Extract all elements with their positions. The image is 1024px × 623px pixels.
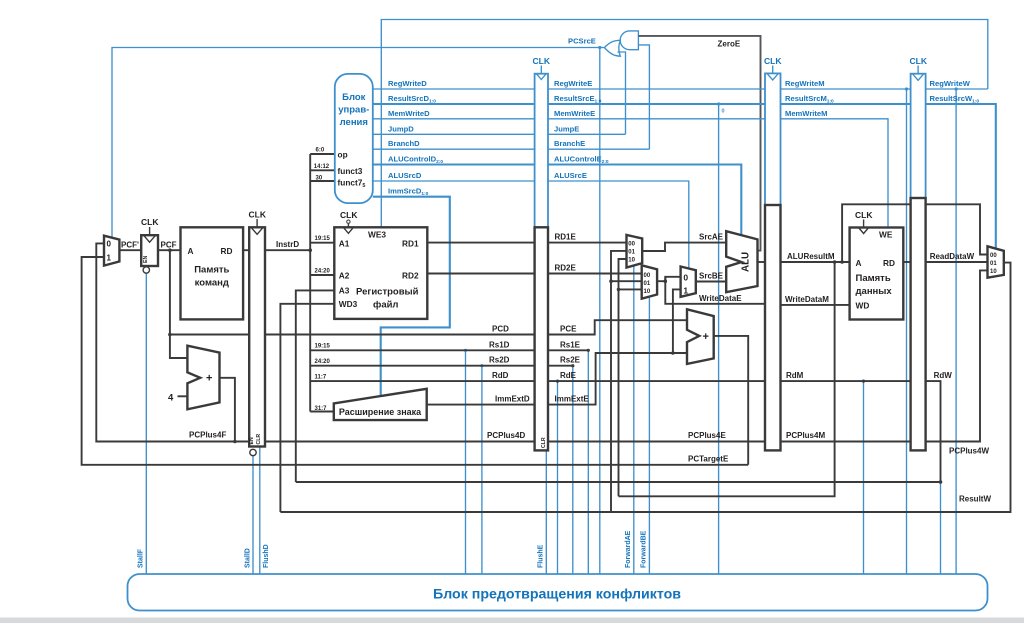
wire ResultSrcE0 tap to hazard bbox=[718, 104, 720, 574]
svg-text:PCSrcE: PCSrcE bbox=[568, 37, 596, 46]
svg-text:ForwardBE: ForwardBE bbox=[641, 530, 648, 568]
wire StallD (hazard to IF/ID EN) bbox=[252, 456, 254, 574]
svg-text:RD1: RD1 bbox=[402, 238, 419, 248]
wire ForwardBE (hazard to forward mux B select) bbox=[648, 298, 650, 574]
wire BranchD bbox=[373, 148, 535, 150]
sign extender: Расширение знака bbox=[334, 389, 427, 420]
svg-text:ALUResultM: ALUResultM bbox=[787, 252, 835, 261]
wire Rs2D tap to hazard bbox=[481, 366, 483, 574]
junction dots execute bbox=[609, 279, 675, 354]
svg-text:ALUSrcD: ALUSrcD bbox=[388, 171, 422, 180]
svg-text:Rs1D: Rs1D bbox=[489, 340, 510, 349]
wire mux B output to SrcB mux 0 and WriteDataE bbox=[657, 277, 681, 281]
svg-text:Расширение знака: Расширение знака bbox=[339, 407, 422, 417]
svg-text:A1: A1 bbox=[339, 238, 350, 248]
svg-text:WriteDataE: WriteDataE bbox=[699, 294, 742, 303]
svg-text:ResultW: ResultW bbox=[959, 495, 991, 504]
wire RegWriteD bbox=[373, 88, 535, 90]
svg-text:24:20: 24:20 bbox=[315, 359, 331, 365]
wire PCPlus4D row bbox=[265, 441, 535, 443]
svg-text:RegWriteE: RegWriteE bbox=[554, 79, 592, 88]
svg-text:00: 00 bbox=[628, 242, 635, 248]
wire ResultW (result mux output feedback to WD3 and forward muxes) bbox=[280, 263, 1010, 512]
svg-text:PCE: PCE bbox=[560, 325, 577, 334]
svg-text:CLK: CLK bbox=[340, 210, 358, 220]
wire PCE to branch adder bbox=[548, 320, 687, 334]
svg-text:RdD: RdD bbox=[492, 371, 509, 380]
clock stub MEM/WB bbox=[917, 66, 919, 74]
wire RegWriteM bbox=[781, 88, 911, 90]
svg-text:MemWriteM: MemWriteM bbox=[785, 109, 827, 118]
wire 4 constant into adder bbox=[178, 395, 188, 397]
svg-text:Rs1E: Rs1E bbox=[560, 340, 581, 349]
svg-text:InstrD: InstrD bbox=[276, 240, 299, 249]
svg-text:A2: A2 bbox=[339, 271, 350, 281]
wire SrcBE (SrcB mux to ALU) bbox=[696, 281, 726, 283]
result mux bbox=[988, 246, 1004, 277]
wire ALUResultM down branch to forwarding line bbox=[619, 262, 835, 496]
wire ALUResultE to EX/MEM bbox=[758, 261, 765, 263]
svg-text:CLR: CLR bbox=[256, 434, 262, 445]
forward mux A bbox=[627, 235, 643, 268]
clock stub data memory bbox=[863, 220, 865, 228]
svg-text:+: + bbox=[703, 331, 709, 343]
wire BranchE up to AND gate bbox=[638, 45, 649, 149]
wire PCPlus4M row bbox=[781, 441, 911, 443]
svg-text:+: + bbox=[206, 373, 212, 385]
svg-text:ImmExtE: ImmExtE bbox=[555, 394, 590, 403]
svg-text:10: 10 bbox=[990, 269, 997, 275]
data memory: Память данных bbox=[850, 228, 904, 320]
wire RdE tap to hazard bbox=[557, 381, 559, 574]
wire ResultSrcM1:0 bbox=[781, 103, 911, 105]
wire ResultSrcD1:0 bbox=[373, 103, 535, 105]
wire JumpE bbox=[548, 133, 626, 135]
wire ImmExtE to SrcB mux 1 bbox=[673, 289, 681, 353]
svg-text:PCD: PCD bbox=[492, 325, 509, 334]
svg-text:WD: WD bbox=[856, 301, 870, 311]
MEM/WB pipeline register control part bbox=[911, 74, 926, 198]
svg-text:ZeroE: ZeroE bbox=[718, 40, 741, 49]
svg-text:24:20: 24:20 bbox=[315, 268, 331, 274]
svg-text:1: 1 bbox=[107, 254, 112, 263]
wire A3 from RdW feedback bbox=[296, 290, 335, 482]
svg-text:WE: WE bbox=[879, 230, 893, 240]
wire PC+4 adder output to PCPlus4F row bbox=[220, 378, 235, 442]
wire funct3 field 14:12 to control bbox=[310, 169, 335, 171]
wire ALUControlD2:0 bbox=[373, 163, 535, 165]
ID/EX pipeline register datapath part bbox=[535, 227, 548, 450]
wire ALUSrcE to SrcB mux select bbox=[548, 181, 689, 269]
svg-text:01: 01 bbox=[990, 261, 997, 267]
svg-text:WriteDataM: WriteDataM bbox=[785, 295, 829, 304]
junction dot InstrD bus bbox=[308, 248, 312, 252]
wire ResultSrcW1:0 to result mux select bbox=[926, 104, 996, 248]
wire RdE row to EX/MEM bbox=[548, 380, 765, 382]
svg-text:ления: ления bbox=[340, 117, 368, 128]
wire ImmSrcD1:0 to sign extender bbox=[373, 197, 450, 397]
svg-text:файл: файл bbox=[373, 300, 398, 311]
wire FlushE (hazard to ID/EX CLR) bbox=[545, 450, 547, 574]
PC mux bbox=[104, 236, 119, 266]
svg-text:RegWriteD: RegWriteD bbox=[388, 79, 427, 88]
svg-text:CLK: CLK bbox=[764, 56, 782, 66]
wire PCPlus4F feedback to PC mux input 0 bbox=[96, 243, 249, 441]
SrcB mux bbox=[681, 267, 696, 297]
junction dots blue bbox=[464, 46, 958, 367]
svg-text:ALUControlE2:0: ALUControlE2:0 bbox=[554, 155, 609, 166]
wire funct7 field 30 to control bbox=[310, 180, 335, 182]
branch adder bbox=[687, 309, 714, 364]
wire Rs2E row bbox=[548, 365, 573, 367]
clock stub PC bbox=[149, 227, 151, 235]
EN bubble on IF/ID (StallD) bbox=[250, 449, 256, 455]
svg-text:31:7: 31:7 bbox=[315, 406, 328, 412]
PC register bbox=[141, 235, 158, 266]
svg-text:4: 4 bbox=[168, 393, 174, 404]
svg-text:команд: команд bbox=[195, 278, 229, 289]
svg-text:Rs2D: Rs2D bbox=[489, 356, 510, 365]
svg-text:FlushE: FlushE bbox=[538, 544, 545, 568]
svg-text:op: op bbox=[338, 150, 348, 160]
instruction memory: Память команд bbox=[181, 227, 244, 319]
svg-text:ReadDataW: ReadDataW bbox=[930, 252, 975, 261]
svg-text:EN: EN bbox=[249, 437, 255, 444]
svg-text:14:12: 14:12 bbox=[314, 164, 330, 170]
wire StallF (hazard to PC EN) bbox=[145, 273, 147, 574]
wire PCF (PC register to instruction memory A) bbox=[158, 249, 181, 251]
wire Rs1E tap to hazard bbox=[587, 350, 589, 574]
svg-text:00: 00 bbox=[990, 253, 997, 259]
svg-text:funct75: funct75 bbox=[338, 178, 366, 190]
wire ForwardAE (hazard to forward mux A select) bbox=[633, 266, 635, 574]
AND gate (BranchE & ZeroE) bbox=[620, 31, 638, 50]
svg-text:RegWriteM: RegWriteM bbox=[785, 79, 825, 88]
wire A1 field 19:15 bbox=[310, 242, 334, 244]
svg-text:PCF: PCF bbox=[161, 241, 177, 250]
svg-text:RD1E: RD1E bbox=[555, 233, 577, 242]
svg-text:A: A bbox=[188, 246, 194, 256]
wire JumpE up to OR gate bbox=[618, 52, 626, 134]
svg-text:управ-: управ- bbox=[338, 105, 369, 116]
EX/MEM pipeline register datapath part bbox=[765, 205, 781, 450]
wire RD to IF/ID (InstrF) bbox=[243, 249, 249, 251]
svg-text:PCPlus4M: PCPlus4M bbox=[786, 431, 825, 440]
wire PCF' (PC mux to PC register) bbox=[119, 249, 141, 251]
wire PCTargetE feedback to PC mux input 1 bbox=[82, 257, 749, 465]
svg-text:CLK: CLK bbox=[141, 217, 159, 227]
wire RdW tap to hazard bbox=[940, 482, 942, 574]
wire ReadDataW to result mux 01 bbox=[926, 261, 988, 263]
wire Rs1D row 19:15 bbox=[310, 349, 534, 351]
svg-text:WD3: WD3 bbox=[339, 299, 358, 309]
svg-text:SrcBE: SrcBE bbox=[699, 272, 724, 281]
wire RdM tap to hazard bbox=[863, 381, 865, 574]
svg-text:01: 01 bbox=[644, 281, 651, 287]
svg-text:BranchE: BranchE bbox=[554, 139, 585, 148]
wire RdW (MEM/WB to feedback and hazard) bbox=[296, 381, 941, 482]
svg-text:EN: EN bbox=[143, 256, 149, 263]
wire ReadDataW (data memory RD to MEM/WB) bbox=[903, 261, 910, 263]
wire PCD row (IF/ID to ID/EX) bbox=[265, 334, 535, 336]
svg-text:MemWriteE: MemWriteE bbox=[554, 109, 595, 118]
wire PCTargetE (branch adder output to PC mux feedback) bbox=[714, 336, 749, 465]
svg-text:PCPlus4W: PCPlus4W bbox=[949, 447, 989, 456]
wire ImmExtD to ID/EX bbox=[427, 404, 535, 406]
wire PCSrcE down to hazard bbox=[599, 48, 601, 575]
svg-text:10: 10 bbox=[628, 258, 635, 264]
wire Rs1E row bbox=[548, 349, 588, 351]
svg-text:Память: Память bbox=[194, 265, 229, 276]
wire JumpD bbox=[373, 133, 535, 135]
wire MemWriteE bbox=[548, 118, 765, 120]
wire ALUControlE2:0 to ALU bbox=[548, 165, 741, 235]
wire A2 field 24:20 bbox=[310, 274, 334, 276]
wire RD2E to forward mux B bbox=[548, 273, 642, 275]
MEM/WB pipeline register datapath part bbox=[911, 198, 926, 450]
wire Rs2E tap to hazard bbox=[572, 366, 574, 574]
wire RegWriteW feedback top line to register file WE3 bbox=[381, 20, 988, 228]
svg-text:RegWriteW: RegWriteW bbox=[930, 79, 971, 88]
wire PCF tap down to PC+4 adder and PCD row bbox=[170, 250, 188, 358]
register file: Регистровый файл bbox=[334, 227, 427, 319]
svg-text:CLR: CLR bbox=[541, 437, 547, 448]
svg-text:StallD: StallD bbox=[244, 548, 251, 568]
svg-text:A: A bbox=[856, 258, 862, 268]
wire WriteDataE row bbox=[665, 277, 765, 304]
wire ALUResultM (EX/MEM to data memory A) bbox=[781, 261, 850, 263]
svg-text:RD2E: RD2E bbox=[555, 264, 577, 273]
svg-text:PCTargetE: PCTargetE bbox=[688, 455, 729, 464]
svg-text:PCPlus4F: PCPlus4F bbox=[189, 431, 226, 440]
svg-text:SrcAE: SrcAE bbox=[699, 233, 724, 242]
svg-text:WE3: WE3 bbox=[368, 229, 386, 239]
svg-text:A3: A3 bbox=[339, 285, 350, 295]
clock stub EX/MEM bbox=[772, 66, 774, 74]
svg-text:ResultSrcW1:0: ResultSrcW1:0 bbox=[930, 94, 980, 105]
wire ImmExtE row and rise to branch adder bbox=[548, 353, 687, 405]
wire FlushD (hazard to IF/ID CLR) bbox=[259, 447, 261, 575]
wire MemWriteM to data memory WE bbox=[781, 119, 889, 228]
svg-text:11:7: 11:7 bbox=[315, 374, 327, 380]
svg-text:ALUSrcE: ALUSrcE bbox=[554, 171, 587, 180]
svg-text:19:15: 19:15 bbox=[315, 236, 331, 242]
svg-text:PCPlus4E: PCPlus4E bbox=[688, 431, 726, 440]
wire ALUResultM up branch into MEM/WB (ALUResultW) bbox=[842, 204, 987, 262]
wire SrcAE (mux A output to ALU) bbox=[642, 243, 726, 251]
clock stub ID/EX bbox=[540, 66, 542, 74]
svg-text:6:0: 6:0 bbox=[316, 148, 325, 154]
wire ALUSrcD bbox=[373, 180, 535, 182]
wire 31:7 into sign extender bbox=[310, 411, 334, 413]
wire ALUResultM stub to forward mux B 10 bbox=[619, 288, 642, 290]
svg-text:ALU: ALU bbox=[741, 252, 752, 272]
wire PCSrcE row to PC mux select bbox=[112, 48, 605, 237]
svg-text:Rs2E: Rs2E bbox=[560, 356, 581, 365]
svg-text:CLK: CLK bbox=[533, 56, 551, 66]
wire RegWriteW tap to hazard bbox=[955, 89, 957, 574]
wire RdD row 11:7 bbox=[310, 380, 534, 382]
ALU bbox=[726, 231, 757, 292]
wire ZeroE (ALU zero flag to AND gate) bbox=[638, 36, 760, 251]
wire RegWriteM tap to hazard bbox=[906, 89, 908, 574]
svg-text:1: 1 bbox=[683, 286, 688, 296]
svg-text:00: 00 bbox=[644, 273, 651, 279]
PC+4 adder bbox=[187, 346, 219, 410]
wire MemWriteD bbox=[373, 118, 535, 120]
svg-text:RD: RD bbox=[221, 246, 233, 256]
wire PCPlus4W to result mux 10 bbox=[926, 270, 988, 441]
wire PCD into IF/ID bbox=[170, 334, 249, 336]
clock stub IF/ID bbox=[256, 219, 258, 227]
OR gate (PCSrcE = JumpE + BranchE&ZeroE) bbox=[604, 40, 620, 56]
svg-text:данных: данных bbox=[856, 286, 893, 297]
svg-text:RdW: RdW bbox=[934, 371, 953, 380]
svg-text:PCPlus4D: PCPlus4D bbox=[487, 431, 525, 440]
wire ResultW stub to forward mux B 01 bbox=[611, 280, 642, 282]
svg-text:ALUControlD2:0: ALUControlD2:0 bbox=[388, 155, 443, 166]
wire ALUResultM up to forward mux A 10 bbox=[619, 259, 627, 496]
svg-text:Память: Память bbox=[856, 273, 891, 284]
svg-text:MemWriteD: MemWriteD bbox=[388, 109, 430, 118]
wire ResultSrcE1:0 bbox=[548, 103, 765, 105]
EX/MEM pipeline register control part bbox=[765, 73, 781, 205]
svg-text:RD2: RD2 bbox=[402, 271, 419, 281]
wire RD1 to ID/EX bbox=[427, 242, 534, 244]
wire op field 6:0 to control bbox=[310, 153, 335, 155]
wire RdM row to MEM/WB bbox=[781, 380, 911, 382]
ID/EX pipeline register control part bbox=[535, 74, 548, 228]
svg-text:CLK: CLK bbox=[855, 210, 873, 220]
junction dots fetch bbox=[168, 248, 237, 443]
wire WD3 from ResultW feedback bbox=[280, 304, 334, 512]
svg-text:funct3: funct3 bbox=[338, 166, 363, 176]
wire PCPlus4E row bbox=[548, 441, 765, 443]
wire ResultW up to forward mux A 01 bbox=[611, 251, 627, 512]
svg-text:0: 0 bbox=[683, 273, 688, 283]
hazard unit: Блок предотвращения конфликтов bbox=[128, 574, 988, 611]
svg-text:CLK: CLK bbox=[910, 56, 928, 66]
EN bubble on PC register bbox=[143, 267, 149, 273]
svg-text:FlushD: FlushD bbox=[263, 544, 270, 568]
junction dots mem bbox=[556, 260, 942, 484]
svg-text:Блок: Блок bbox=[342, 92, 366, 103]
svg-text:JumpE: JumpE bbox=[554, 124, 579, 133]
svg-text:10: 10 bbox=[644, 289, 651, 295]
svg-text:30: 30 bbox=[316, 176, 323, 182]
wire Rs2D row 24:20 bbox=[310, 365, 534, 367]
svg-text:JumpD: JumpD bbox=[388, 124, 414, 133]
svg-text:StallF: StallF bbox=[138, 548, 145, 568]
forward mux B bbox=[642, 265, 657, 298]
IF/ID pipeline register bbox=[249, 227, 265, 446]
wire WriteDataM (EX/MEM to data memory WD) bbox=[781, 304, 850, 306]
clock stub register file bbox=[347, 220, 349, 228]
svg-text:0: 0 bbox=[107, 240, 112, 249]
control unit: Блок управления bbox=[335, 74, 373, 203]
wire RD1E to forward mux A bbox=[548, 242, 627, 244]
svg-text:ImmExtD: ImmExtD bbox=[495, 394, 530, 403]
wire RegWriteE bbox=[548, 88, 765, 90]
wire BranchE bbox=[548, 148, 649, 150]
svg-text:BranchD: BranchD bbox=[388, 139, 420, 148]
svg-text:RD: RD bbox=[883, 258, 895, 268]
wire Rs1D tap to hazard bbox=[465, 350, 467, 574]
svg-text:01: 01 bbox=[628, 250, 635, 256]
svg-text:ResultSrcM1:0: ResultSrcM1:0 bbox=[785, 94, 834, 105]
svg-text:ForwardAE: ForwardAE bbox=[625, 530, 632, 568]
svg-text:0: 0 bbox=[722, 109, 725, 115]
svg-text:RdE: RdE bbox=[560, 371, 577, 380]
svg-text:PCF': PCF' bbox=[121, 241, 139, 250]
svg-text:CLK: CLK bbox=[249, 210, 267, 220]
svg-text:RdM: RdM bbox=[786, 371, 804, 380]
wire RegWriteW bbox=[926, 88, 988, 90]
svg-text:Блок предотвращения конфликтов: Блок предотвращения конфликтов bbox=[433, 587, 681, 603]
instruction bus vertical bbox=[309, 154, 311, 412]
wire RD2 to ID/EX bbox=[427, 273, 534, 275]
svg-text:19:15: 19:15 bbox=[315, 344, 331, 350]
wire InstrD to instruction bus bbox=[265, 249, 310, 251]
page edge band bbox=[0, 618, 1024, 623]
svg-text:Регистровый: Регистровый bbox=[356, 287, 419, 298]
